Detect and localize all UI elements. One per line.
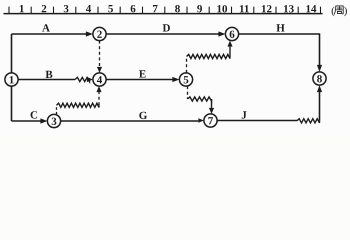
svg-text:1: 1 [9,74,15,86]
svg-text:E: E [139,68,146,80]
svg-text:H: H [276,22,285,34]
svg-text:10: 10 [216,3,228,15]
svg-text:11: 11 [239,3,249,15]
svg-text:D: D [163,22,171,34]
svg-text:): ) [344,5,348,17]
svg-text:G: G [139,110,148,122]
svg-text:2: 2 [41,3,47,15]
svg-text:2: 2 [97,29,103,41]
svg-text:8: 8 [175,3,181,15]
svg-text:C: C [30,109,38,121]
svg-text:14: 14 [305,3,317,15]
svg-text:1: 1 [19,3,25,15]
svg-text:12: 12 [261,3,273,15]
svg-text:4: 4 [97,74,103,86]
svg-text:3: 3 [51,116,57,128]
svg-text:8: 8 [317,73,323,85]
svg-text:J: J [241,109,247,121]
svg-text:3: 3 [63,3,69,15]
svg-text:6: 6 [130,3,136,15]
svg-text:A: A [42,22,50,34]
svg-text:7: 7 [152,3,158,15]
svg-text:B: B [45,69,53,81]
svg-text:(: ( [331,5,335,17]
svg-text:13: 13 [283,3,295,15]
svg-text:6: 6 [229,29,235,41]
svg-text:5: 5 [108,3,114,15]
svg-text:4: 4 [86,3,92,15]
svg-text:7: 7 [208,115,214,127]
svg-text:9: 9 [197,3,203,15]
svg-text:5: 5 [183,74,189,86]
